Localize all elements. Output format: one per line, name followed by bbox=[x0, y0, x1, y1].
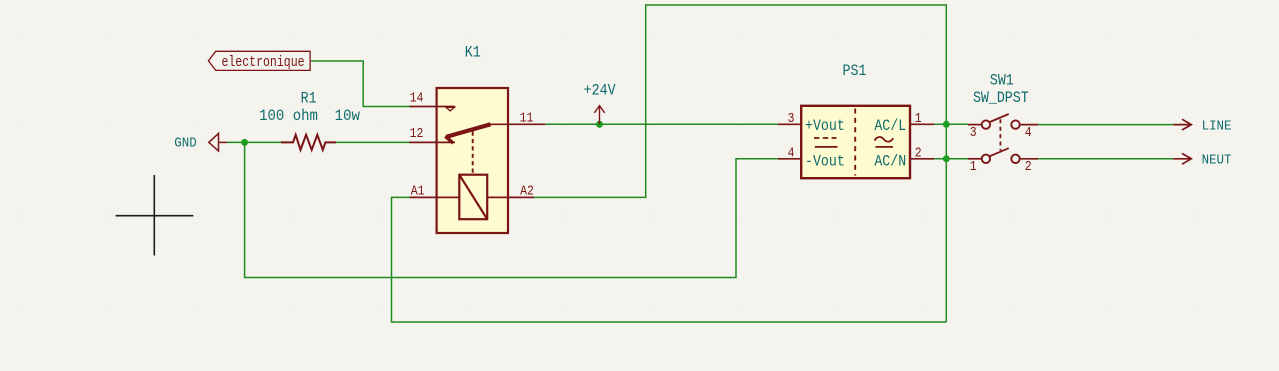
wire pin11 to PS1 pin3 bbox=[545, 123, 777, 125]
DC symbol bbox=[814, 138, 838, 147]
svg-text:+24V: +24V bbox=[584, 82, 616, 99]
PS1 pin 3 bbox=[778, 123, 802, 125]
SW pole A contact circle left bbox=[982, 120, 990, 128]
svg-text:3: 3 bbox=[788, 111, 795, 126]
PS1 pin 4 bbox=[778, 158, 802, 160]
relay coil box bbox=[459, 175, 487, 220]
SW pole A pin 4 stub bbox=[1020, 124, 1039, 126]
svg-text:100 ohm 10w: 100 ohm 10w bbox=[259, 106, 360, 125]
svg-text:GND: GND bbox=[174, 135, 196, 151]
hierarchical arrow LINE bbox=[1173, 119, 1191, 130]
svg-text:+Vout: +Vout bbox=[805, 118, 845, 135]
svg-text:AC/N: AC/N bbox=[874, 154, 906, 171]
SW linkage dashed line bbox=[999, 119, 1001, 150]
wire PS1 pin2 to SW bbox=[934, 158, 968, 160]
svg-text:3: 3 bbox=[970, 125, 977, 140]
wire A1 loop bbox=[392, 197, 947, 322]
SW pole B contact circle left bbox=[982, 155, 990, 163]
relay actuator dashed line bbox=[472, 132, 474, 175]
pin 11 bbox=[490, 123, 545, 125]
wire SW4 to LINE bbox=[1038, 124, 1173, 126]
wire PS1 pin1 to SW bbox=[934, 123, 968, 125]
relay contact barb bbox=[445, 136, 453, 143]
hierarchical arrow NEUT bbox=[1173, 153, 1191, 164]
svg-text:4: 4 bbox=[788, 146, 795, 161]
wire GND junction down to bottom loop bbox=[245, 142, 778, 277]
SW pole A pin 3 stub bbox=[968, 124, 981, 126]
pin A1 bbox=[410, 196, 460, 198]
svg-text:K1: K1 bbox=[465, 45, 481, 62]
svg-text:2: 2 bbox=[915, 146, 922, 161]
PS1 center dashed line bbox=[854, 109, 856, 176]
wire SW2 to NEUT bbox=[1038, 158, 1173, 160]
SW pole B pin 1 stub bbox=[968, 158, 981, 160]
junction dot +24V bbox=[596, 121, 603, 128]
PS1 pin 1 bbox=[910, 123, 934, 125]
GND arrow shape bbox=[209, 133, 227, 151]
PS1 pin 2 bbox=[910, 158, 934, 160]
PS1 body bbox=[801, 106, 910, 178]
wire electronique to pin14 bbox=[311, 61, 410, 107]
svg-text:-Vout: -Vout bbox=[805, 154, 845, 171]
pin 14 bbox=[410, 106, 455, 108]
junction dot pin2 bbox=[943, 155, 950, 162]
svg-text:4: 4 bbox=[1025, 125, 1032, 140]
svg-text:electronique: electronique bbox=[221, 55, 304, 72]
power symbol +24V bbox=[594, 106, 604, 125]
cross marker bbox=[116, 175, 194, 256]
SW pole B contact circle right bbox=[1011, 155, 1019, 163]
svg-text:A1: A1 bbox=[411, 184, 425, 199]
SW pole B pin 2 stub bbox=[1020, 158, 1039, 160]
SW pole B arm bbox=[990, 148, 1009, 156]
relay contact arm bbox=[446, 124, 490, 137]
pin A2 bbox=[487, 196, 534, 198]
svg-text:PS1: PS1 bbox=[843, 63, 867, 80]
svg-text:11: 11 bbox=[520, 111, 534, 126]
svg-text:SW1: SW1 bbox=[990, 73, 1014, 90]
coil diagonal bbox=[459, 175, 487, 220]
junction dot pin1 bbox=[943, 121, 950, 128]
SW pole A arm bbox=[990, 114, 1009, 122]
svg-text:12: 12 bbox=[410, 126, 424, 141]
wire resistor to pin12 bbox=[336, 141, 410, 143]
svg-text:AC/L: AC/L bbox=[874, 118, 906, 135]
global label electronique bbox=[208, 51, 310, 70]
wire A2 loop bbox=[534, 5, 946, 322]
AC symbol bbox=[875, 137, 894, 147]
resistor R1 bbox=[281, 135, 336, 150]
pin 12 bbox=[410, 141, 456, 143]
relay K1 body bbox=[437, 88, 508, 233]
svg-text:LINE: LINE bbox=[1202, 118, 1232, 134]
svg-text:1: 1 bbox=[970, 159, 977, 174]
svg-text:14: 14 bbox=[410, 91, 424, 106]
svg-text:NEUT: NEUT bbox=[1202, 152, 1232, 168]
junction dot GND net bbox=[241, 139, 248, 146]
svg-text:A2: A2 bbox=[520, 184, 534, 199]
svg-text:SW_DPST: SW_DPST bbox=[973, 90, 1029, 107]
svg-text:1: 1 bbox=[915, 111, 922, 126]
NO contact triangle bbox=[446, 107, 455, 111]
wire GND to resistor bbox=[227, 141, 281, 143]
svg-text:2: 2 bbox=[1025, 159, 1032, 174]
SW pole A contact circle right bbox=[1011, 120, 1019, 128]
